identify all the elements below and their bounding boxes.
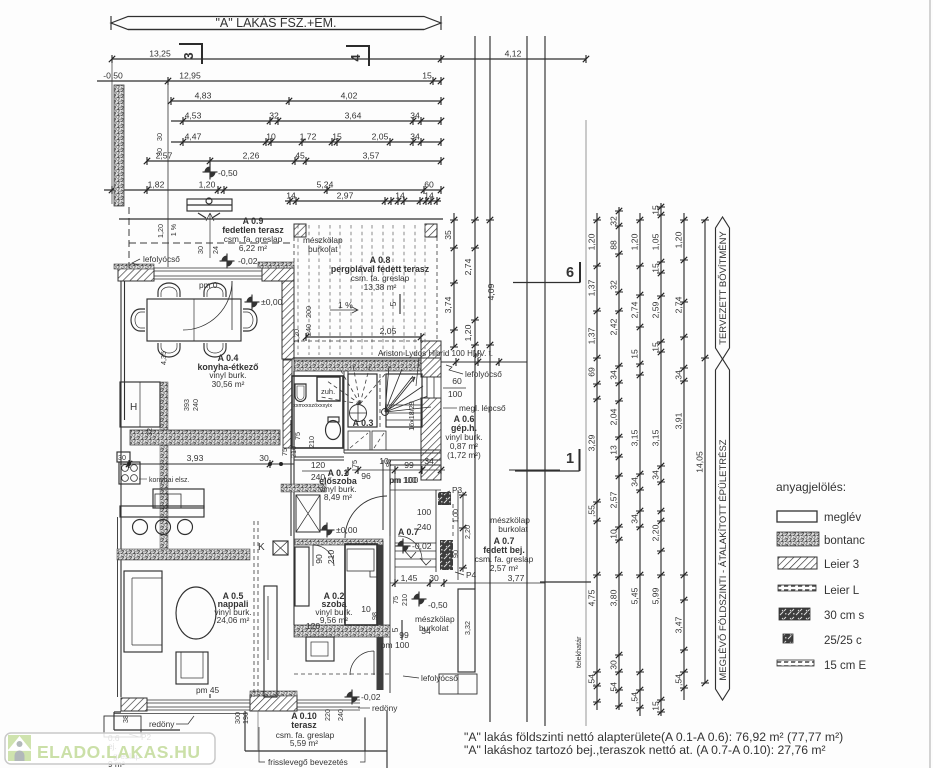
svg-text:30: 30 — [429, 573, 439, 583]
svg-text:100: 100 — [417, 507, 432, 517]
svg-text:1,45: 1,45 — [401, 573, 418, 583]
svg-text:24: 24 — [211, 246, 220, 254]
svg-text:1 %: 1 % — [338, 300, 353, 310]
top dimension line 4,47 / 10 / 1,72 / 15 / 2,05 / 34 — [171, 141, 441, 143]
svg-text:45: 45 — [295, 151, 305, 161]
svg-text:15: 15 — [630, 349, 640, 359]
svg-text:-0,50: -0,50 — [218, 168, 238, 178]
svg-text:3,57: 3,57 — [363, 151, 380, 161]
svg-text:98: 98 — [384, 459, 393, 467]
svg-text:1,20: 1,20 — [674, 231, 684, 248]
svg-text:2,74: 2,74 — [463, 258, 473, 275]
svg-text:ELADO.LAKAS.HU: ELADO.LAKAS.HU — [37, 742, 201, 762]
svg-text:-0,02: -0,02 — [238, 256, 258, 266]
svg-text:13,25: 13,25 — [149, 49, 171, 59]
svg-text:30: 30 — [118, 453, 126, 462]
svg-text:"A" lakáshoz tartozó bej.,tera: "A" lakáshoz tartozó bej.,teraszok nettó… — [464, 743, 826, 757]
entry door arc large — [345, 496, 387, 538]
svg-text:-0,02: -0,02 — [361, 692, 381, 702]
svg-text:32: 32 — [145, 428, 154, 436]
svg-text:2,97: 2,97 — [337, 191, 354, 201]
svg-text:34: 34 — [424, 456, 434, 466]
svg-text:15: 15 — [651, 701, 661, 711]
svg-text:pm 100: pm 100 — [390, 475, 419, 485]
svg-text:,54: ,54 — [630, 692, 640, 704]
svg-text:14: 14 — [424, 191, 434, 201]
kitchen counter lower — [153, 489, 204, 508]
svg-text:2,05: 2,05 — [380, 326, 397, 336]
svg-text:30: 30 — [196, 246, 205, 254]
svg-text:393: 393 — [182, 399, 191, 411]
wall bathroom top band — [294, 360, 441, 371]
wall bathroom left — [293, 371, 295, 445]
line y470 right — [509, 469, 560, 471]
svg-text:34: 34 — [651, 470, 661, 480]
bed in szoba — [345, 544, 377, 625]
svg-text:10: 10 — [266, 132, 276, 142]
banner MEGLEVO FOLDSZINTI - ATALAKITOTT EPULETRESZ — [716, 359, 730, 700]
dim 120 line — [302, 470, 330, 472]
svg-text:3,64: 3,64 — [345, 111, 362, 121]
svg-text:lefolyócső: lefolyócső — [143, 254, 180, 264]
title banner "A" LAKAS FSZ.+EM. — [111, 15, 441, 30]
svg-text:bontanc: bontanc — [824, 535, 865, 547]
wall eloszoba left vertical — [291, 371, 294, 625]
svg-text:anyagjelölés:: anyagjelölés: — [776, 480, 846, 494]
bottom-left terrace box — [104, 716, 141, 737]
svg-text:99: 99 — [399, 630, 409, 640]
wall mid vertical kitchen/pergola — [282, 281, 294, 359]
vertical reference line x475 — [474, 36, 476, 589]
svg-text:12,95: 12,95 — [179, 71, 201, 81]
dining chairs — [158, 283, 180, 297]
kitchen door arc top — [183, 281, 232, 330]
svg-text:8,49 m²: 8,49 m² — [324, 492, 352, 502]
dimension chain x684 — [683, 213, 685, 700]
svg-text:,54: ,54 — [609, 682, 619, 694]
svg-text:4,75: 4,75 — [587, 589, 597, 606]
dim 1,45 / 30 / 3,77 porch bottom — [390, 582, 545, 584]
ticks on x475 as dim line — [471, 217, 479, 223]
svg-text:±0,00: ±0,00 — [261, 297, 283, 307]
svg-text:99: 99 — [404, 460, 414, 470]
top dimension line 13,25 / 4,12 — [112, 58, 586, 60]
svg-text:2,74: 2,74 — [630, 301, 640, 318]
svg-text:±0,00: ±0,00 — [336, 525, 358, 535]
svg-text:3,15: 3,15 — [630, 429, 640, 446]
svg-text:P3: P3 — [452, 485, 463, 495]
wall eloszoba right vertical — [383, 460, 390, 536]
svg-text:1,20: 1,20 — [463, 324, 473, 341]
svg-text:5,45: 5,45 — [630, 587, 640, 604]
washbasin — [295, 384, 306, 402]
svg-text:Leier L: Leier L — [824, 585, 860, 597]
top dimension line 2,57 / 2,26 / 45 / 3,57 — [147, 160, 441, 162]
svg-text:98: 98 — [370, 612, 379, 620]
svg-text:4: 4 — [348, 54, 363, 62]
sill line bottom-left — [114, 713, 247, 715]
tall wardrobe line nappali/szoba divider dashed — [254, 521, 258, 697]
desk in szoba — [306, 637, 334, 661]
section mark 1 — [515, 470, 580, 472]
svg-text:15: 15 — [422, 71, 432, 81]
svg-text:34: 34 — [630, 477, 640, 487]
short horizontal line y582 — [540, 581, 591, 583]
wall pergola post top-right — [425, 224, 437, 237]
svg-text:2,57: 2,57 — [609, 491, 619, 508]
wall szoba right vertical — [377, 541, 384, 690]
svg-text:32: 32 — [609, 280, 619, 290]
svg-text:4,83: 4,83 — [195, 91, 212, 101]
svg-text:210: 210 — [400, 594, 409, 606]
svg-text:,54: ,54 — [587, 674, 597, 686]
svg-text:A 0.7: A 0.7 — [398, 527, 419, 537]
svg-text:-0,50: -0,50 — [428, 600, 448, 610]
svg-text:13,38 m²: 13,38 m² — [364, 282, 397, 292]
dim line y362 right — [441, 361, 527, 363]
szoba door arc top — [313, 545, 334, 566]
left extension line x112 — [111, 62, 113, 204]
svg-text:burkolat: burkolat — [308, 244, 338, 254]
svg-text:3,77: 3,77 — [508, 573, 525, 583]
svg-text:1: 1 — [566, 451, 574, 467]
dim 3,93 / 30 kitchen — [120, 463, 294, 465]
svg-text:"A" lakás földszinti nettó ala: "A" lakás földszinti nettó alapterülete(… — [464, 730, 843, 744]
svg-text:,54: ,54 — [674, 674, 684, 686]
svg-text:5,59 m²: 5,59 m² — [290, 738, 318, 748]
svg-text:1,37: 1,37 — [587, 279, 597, 296]
wall window gap right — [427, 377, 441, 398]
svg-text:zuh.: zuh. — [321, 387, 335, 396]
svg-text:1,00: 1,00 — [451, 509, 460, 523]
legend swatch 30 cm — [779, 608, 810, 620]
banner TERVEZETT BOVITMENY — [716, 217, 730, 359]
svg-text:60: 60 — [424, 180, 434, 190]
svg-text:30 cm s: 30 cm s — [824, 610, 865, 622]
svg-text:15: 15 — [651, 263, 661, 273]
svg-text:frisslevegő bevezetés: frisslevegő bevezetés — [268, 757, 348, 767]
wall pergola post bottom-right — [421, 341, 441, 358]
svg-text:lefolyócső: lefolyócső — [465, 369, 502, 379]
svg-text:34: 34 — [421, 626, 431, 636]
dimension chain x661 — [660, 203, 662, 716]
svg-text:34: 34 — [609, 370, 619, 380]
top dimension line 12,95 — [97, 80, 441, 82]
WC — [326, 421, 341, 440]
svg-text:2,74: 2,74 — [674, 296, 684, 313]
svg-text:1,20: 1,20 — [156, 224, 165, 238]
szoba dashed line — [294, 673, 390, 675]
legend swatch meglevo — [777, 511, 817, 522]
svg-text:4,02: 4,02 — [341, 91, 358, 101]
svg-text:telekhatár: telekhatár — [574, 636, 583, 668]
svg-text:210: 210 — [289, 446, 298, 458]
svg-text:3,32: 3,32 — [463, 621, 472, 635]
svg-text:megl. lépcső: megl. lépcső — [459, 403, 506, 413]
svg-text:1,20: 1,20 — [292, 329, 301, 343]
svg-text:38: 38 — [121, 715, 130, 723]
dim 2,05 pergola — [306, 336, 421, 338]
svg-text:3,29: 3,29 — [587, 434, 597, 451]
svg-text:75: 75 — [391, 596, 400, 604]
svg-text:Leier 3: Leier 3 — [824, 559, 859, 571]
svg-text:16x18/29: 16x18/29 — [407, 401, 416, 431]
svg-text:redöny: redöny — [372, 703, 398, 713]
level marker +-0,00 kitchen — [245, 295, 260, 310]
svg-text:3,47: 3,47 — [674, 616, 684, 633]
svg-text:pm 45: pm 45 — [196, 685, 219, 695]
dim row under stairs — [294, 630, 390, 632]
svg-text:,55: ,55 — [587, 505, 597, 517]
bottom-left small terrace piece — [114, 712, 180, 730]
level marker +-0,00 eloszoba — [320, 523, 335, 538]
entry porch door arc — [398, 536, 422, 560]
svg-text:90: 90 — [314, 554, 324, 564]
svg-text:3,15: 3,15 — [651, 429, 661, 446]
under-stair cabinets — [348, 431, 370, 450]
svg-text:2,04: 2,04 — [609, 408, 619, 425]
svg-text:3,91: 3,91 — [674, 412, 684, 429]
svg-text:88: 88 — [609, 240, 619, 250]
legend swatch 25/25 — [783, 634, 793, 643]
dimension chain x640 — [639, 213, 641, 716]
svg-text:(1,72 m²): (1,72 m²) — [447, 450, 481, 460]
svg-text:burkolat: burkolat — [498, 524, 528, 534]
top dimension line 1,82 / 1,20 / 5,24 / 60 — [104, 189, 441, 191]
svg-text:1,20: 1,20 — [587, 233, 597, 250]
svg-text:lefolyócső: lefolyócső — [421, 673, 458, 683]
terrace A 0.9 dashed boundary — [128, 207, 130, 268]
svg-text:75: 75 — [293, 432, 302, 440]
svg-text:15: 15 — [332, 132, 342, 142]
dimension chain x619 — [618, 207, 620, 710]
svg-text:240: 240 — [417, 522, 432, 532]
svg-text:4,12: 4,12 — [505, 49, 522, 59]
svg-text:H: H — [130, 402, 137, 413]
svg-text:terasz: terasz — [291, 720, 317, 730]
bathroom outline — [292, 376, 343, 448]
svg-text:34: 34 — [674, 370, 684, 380]
top dimension line 14 / 2,97 / 14 / 14 — [285, 200, 441, 202]
svg-text:2,57: 2,57 — [156, 151, 173, 161]
svg-text:1,20: 1,20 — [630, 233, 640, 250]
svg-text:15 cm E: 15 cm E — [824, 660, 867, 672]
bontando band above eloszoba — [281, 484, 326, 492]
svg-text:3: 3 — [181, 52, 196, 59]
svg-text:9,56 m²: 9,56 m² — [320, 615, 348, 625]
top dimension line 4,83 / 4,02 — [171, 100, 441, 102]
svg-text:210: 210 — [326, 550, 336, 565]
shower — [317, 377, 340, 401]
legend swatch bontando — [777, 532, 819, 546]
level marker -0,02 porch — [396, 539, 411, 554]
wall bontando vertical strip kitchen — [160, 382, 168, 550]
terrace A 0.10 outline — [245, 711, 387, 768]
svg-text:2,57 m²: 2,57 m² — [490, 563, 518, 573]
porch steps bottom-right — [439, 674, 477, 694]
svg-text:25/25 c: 25/25 c — [824, 635, 862, 647]
svg-text:3,80: 3,80 — [609, 589, 619, 606]
wall kitchen left vertical — [117, 517, 119, 697]
svg-text:5,99: 5,99 — [651, 587, 661, 604]
svg-text:14,05: 14,05 — [695, 451, 705, 473]
dim row under stairs — [352, 469, 445, 471]
svg-text:pm 0: pm 0 — [199, 280, 218, 290]
svg-text:120: 120 — [306, 621, 321, 631]
pergola terrace A 0.8 dashed columns — [298, 225, 425, 355]
sofa — [124, 571, 162, 652]
svg-text:13: 13 — [609, 445, 619, 455]
dimension chain overall 14,05 — [704, 220, 706, 683]
svg-text:K: K — [258, 542, 265, 553]
svg-text:96: 96 — [361, 471, 371, 481]
wall bottom band nappali — [121, 698, 147, 711]
wall kitchen/bathroom hatch — [283, 360, 292, 448]
svg-text:1 %: 1 % — [169, 223, 178, 236]
legend swatch Leier Le — [778, 585, 816, 591]
wall bontando band nappali top — [117, 549, 250, 560]
pergola dashed bottom border — [294, 340, 437, 342]
svg-text:xxmxxszöxxxyix: xxmxxszöxxxyix — [293, 403, 332, 409]
wall bontando band kitchen bottom — [130, 430, 280, 445]
svg-text:210: 210 — [307, 436, 316, 448]
wall pergola post top-left — [294, 224, 306, 237]
legend swatch 15 cm — [777, 660, 814, 666]
svg-text:32: 32 — [609, 216, 619, 226]
svg-text:2,42: 2,42 — [609, 318, 619, 335]
svg-text:240: 240 — [311, 472, 326, 482]
svg-text:A 0.3: A 0.3 — [353, 418, 374, 428]
svg-text:2,20: 2,20 — [651, 524, 661, 541]
svg-text:redöny: redöny — [149, 719, 175, 729]
wall top right hatch block — [262, 268, 294, 281]
stair divider dashed — [379, 374, 381, 427]
svg-text:1,05: 1,05 — [651, 233, 661, 250]
svg-text:220: 220 — [323, 709, 332, 721]
svg-text:14: 14 — [286, 191, 296, 201]
porch steps — [395, 543, 436, 567]
svg-text:240: 240 — [336, 709, 345, 721]
svg-text:MEGLÉVŐ FÖLDSZINTI - ÁTALAKÍTO: MEGLÉVŐ FÖLDSZINTI - ÁTALAKÍTOTT ÉPÜLETR… — [718, 439, 729, 680]
dining table — [147, 299, 241, 341]
dimension chain x454 inner — [453, 213, 455, 347]
svg-text:2,05: 2,05 — [372, 132, 389, 142]
svg-text:"A" LAKÁS FSZ.+EM.: "A" LAKÁS FSZ.+EM. — [215, 15, 336, 30]
svg-text:14: 14 — [395, 191, 405, 201]
svg-text:6: 6 — [566, 265, 574, 281]
svg-text:30,56 m²: 30,56 m² — [212, 379, 245, 389]
svg-text:-0,50: -0,50 — [103, 71, 123, 81]
svg-text:4,53: 4,53 — [185, 111, 202, 121]
svg-text:30: 30 — [155, 133, 164, 141]
watermark elado.lakas.hu — [5, 733, 215, 764]
vertical reference line x545 — [544, 36, 546, 726]
wall left top hatch block — [118, 268, 154, 281]
svg-text:6,22 m²: 6,22 m² — [239, 243, 267, 253]
eloszoba wardrobe X-box — [296, 495, 320, 532]
svg-text:1,37: 1,37 — [587, 327, 597, 344]
section mark 6 — [513, 282, 580, 284]
svg-text:4,09: 4,09 — [486, 283, 496, 300]
level marker -0,50 bottom right — [412, 592, 427, 607]
svg-text:2,26: 2,26 — [243, 151, 260, 161]
property line telekhatar x586 — [585, 120, 587, 726]
svg-text:meglév: meglév — [824, 512, 861, 524]
legend swatch Leier 30 — [778, 557, 817, 569]
wall entry right area — [390, 460, 441, 465]
svg-text:24,06 m²: 24,06 m² — [217, 615, 250, 625]
wall right stair hatch — [421, 356, 441, 377]
wall hall/stair boundary — [294, 457, 344, 460]
wall left exterior (bontando speckle) — [114, 85, 124, 206]
svg-text:30: 30 — [609, 660, 619, 670]
svg-text:34: 34 — [410, 132, 420, 142]
level marker -0,02 terrace bottom — [345, 690, 360, 705]
svg-text:32: 32 — [269, 111, 279, 121]
entry porch A 0.7 outline — [390, 470, 458, 580]
wall szoba top — [295, 539, 383, 545]
svg-text:15: 15 — [651, 205, 661, 215]
svg-text:200: 200 — [304, 306, 313, 318]
armchair — [176, 652, 208, 684]
top dimension line 4,53 / 32 / 3,64 / 34 — [171, 120, 441, 122]
oval coffee table — [176, 587, 216, 639]
wall entry dark block P3 — [438, 492, 451, 505]
svg-text:4,47: 4,47 — [185, 132, 202, 142]
ticks on x490 as dim line — [486, 217, 494, 223]
svg-text:1,82: 1,82 — [148, 180, 165, 190]
svg-text:5,24: 5,24 — [317, 180, 334, 190]
terrace A 0.9 bench — [187, 199, 232, 211]
dimension chain x597 — [596, 213, 598, 710]
section mark 3 — [179, 44, 202, 64]
svg-text:90: 90 — [451, 550, 460, 558]
svg-text:konyhai elsz.: konyhai elsz. — [149, 477, 190, 484]
wall szoba top band — [294, 625, 390, 637]
floor drain circle — [350, 405, 367, 422]
wall bathroom/stair divider — [344, 371, 348, 453]
wall szoba bottom band — [297, 700, 360, 710]
vertical reference line x527 — [526, 36, 528, 722]
svg-text:100: 100 — [448, 389, 463, 399]
kitchen appliance block — [119, 462, 140, 484]
wall top window band kitchen — [154, 268, 262, 279]
svg-text:P4: P4 — [466, 570, 477, 580]
stair left compartment — [348, 374, 377, 427]
svg-text:3,93: 3,93 — [187, 453, 204, 463]
wall entry dark block P4 — [440, 540, 453, 570]
svg-text:4,35: 4,35 — [159, 351, 168, 365]
kitchen cabinet H — [120, 382, 160, 427]
pergola terrace border — [294, 237, 437, 341]
svg-text:5: 5 — [388, 301, 398, 306]
vertical reference line x490 — [489, 36, 491, 722]
svg-text:34: 34 — [410, 111, 420, 121]
svg-text:35: 35 — [443, 230, 453, 240]
svg-text:pm 100: pm 100 — [381, 640, 410, 650]
stair right compartment winder — [386, 374, 422, 427]
door chevrons — [404, 550, 431, 565]
svg-text:34: 34 — [630, 514, 640, 524]
svg-text:15: 15 — [651, 342, 661, 352]
svg-text:TERVEZETT BŐVÍTMÉNY: TERVEZETT BŐVÍTMÉNY — [718, 231, 729, 345]
level marker -0,02 terrace top — [220, 254, 235, 269]
svg-text:2,59: 2,59 — [651, 301, 661, 318]
svg-text:120: 120 — [311, 460, 326, 470]
svg-text:10: 10 — [609, 529, 619, 539]
right lower tall rect — [458, 589, 475, 672]
porch chain 1,00/2,20 — [462, 492, 464, 572]
